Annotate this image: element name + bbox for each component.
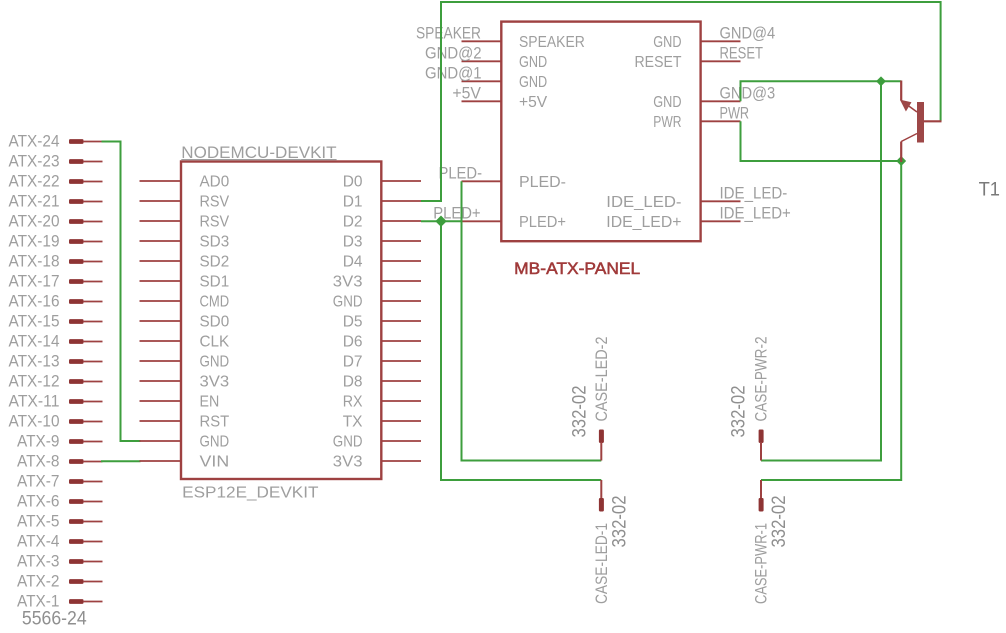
svg-text:PLED+: PLED+ <box>519 214 566 231</box>
svg-text:VIN: VIN <box>200 454 230 471</box>
svg-text:D3: D3 <box>343 234 363 251</box>
svg-text:NODEMCU-DEVKIT: NODEMCU-DEVKIT <box>181 143 336 162</box>
U2 pin RESET (right) <box>635 54 741 71</box>
svg-text:RSV: RSV <box>200 214 230 231</box>
svg-text:CASE-LED-2: CASE-LED-2 <box>593 337 611 422</box>
svg-text:RST: RST <box>200 414 230 431</box>
U2 pin PLED+ (left) <box>462 214 567 231</box>
U1 pin SD1 (left 6) <box>140 274 230 291</box>
svg-text:IDE_LED+: IDE_LED+ <box>606 214 681 231</box>
svg-text:+5V: +5V <box>519 94 548 111</box>
wire net GND@3 down to CASE-PWR-2 <box>761 81 881 460</box>
wire net PLED+ down to CASE-LED-1 <box>441 221 601 480</box>
U2 pin +5V (left) <box>462 94 548 111</box>
U1 pin VIN (left 15) <box>140 454 230 471</box>
svg-text:D7: D7 <box>343 354 363 371</box>
svg-text:ATX-4: ATX-4 <box>17 532 60 550</box>
svg-text:PWR: PWR <box>720 105 750 123</box>
U2 pin GND (left) <box>462 54 548 71</box>
connector J1 pin ATX-20 <box>9 212 103 230</box>
wire net PLED+: U1 D2 to U2 PLED+ <box>421 220 462 222</box>
net label PWR <box>720 105 750 123</box>
svg-text:ATX-3: ATX-3 <box>17 552 60 570</box>
U1 pin 3V3 (left 11) <box>140 374 230 391</box>
svg-text:ATX-2: ATX-2 <box>17 572 60 590</box>
U1 pin D6 (right 9) <box>343 334 421 351</box>
U2 pin IDE_LED+ (right) <box>606 214 740 231</box>
junction node GND@3 <box>876 76 886 86</box>
connector J1 pin ATX-16 <box>9 292 103 310</box>
svg-text:IDE_LED+: IDE_LED+ <box>720 205 791 223</box>
svg-text:D5: D5 <box>343 314 363 331</box>
svg-text:ATX-19: ATX-19 <box>9 232 60 250</box>
svg-text:IDE_LED-: IDE_LED- <box>606 194 681 211</box>
U1 pin D5 (right 8) <box>343 314 421 331</box>
net label SPEAKER <box>416 25 481 43</box>
svg-text:GND: GND <box>200 434 230 451</box>
connector J1 pin ATX-15 <box>9 312 103 330</box>
svg-text:ATX-18: ATX-18 <box>9 252 60 270</box>
label U2 value MB-ATX-PANEL <box>514 259 640 278</box>
net label GND@3 <box>720 85 776 103</box>
svg-text:GND: GND <box>333 294 363 311</box>
svg-text:SPEAKER: SPEAKER <box>519 34 585 51</box>
svg-text:T1: T1 <box>979 179 1000 201</box>
U1 pin SD2 (left 5) <box>140 254 230 271</box>
svg-text:GND@3: GND@3 <box>720 85 776 103</box>
connector J1 pin ATX-1 <box>17 592 103 610</box>
IC U2 MB-ATX-PANEL body <box>501 22 700 242</box>
junction node PLED+ at D2 <box>435 216 446 227</box>
svg-text:ATX-24: ATX-24 <box>9 132 60 150</box>
svg-text:AD0: AD0 <box>200 174 230 191</box>
connector J1 pin ATX-14 <box>9 332 103 350</box>
U1 pin EN (left 12) <box>140 394 220 411</box>
connector J1 pin ATX-18 <box>9 252 103 270</box>
svg-text:3V3: 3V3 <box>200 374 230 391</box>
svg-text:SD3: SD3 <box>200 234 230 251</box>
net label GND@4 <box>720 25 776 43</box>
label U1 value ESP12E_DEVKIT <box>182 484 319 501</box>
U1 pin RSV (left 3) <box>140 214 230 231</box>
connector J1 pin ATX-2 <box>17 572 103 590</box>
U1 pin D4 (right 5) <box>343 254 421 271</box>
U1 pin D0 (right 1) <box>343 174 421 191</box>
svg-text:GND: GND <box>653 34 681 51</box>
label J1 value 5566-24 <box>22 607 87 629</box>
wire net PLED-: U2 PLED- to CASE-LED-2 <box>462 181 602 460</box>
U2 pin PWR (right) <box>653 114 740 131</box>
U1 pin RSV (left 2) <box>140 194 230 211</box>
U2 pin GND (right) <box>653 94 740 111</box>
svg-text:ATX-12: ATX-12 <box>9 372 60 390</box>
svg-text:GND: GND <box>333 434 363 451</box>
U2 pin IDE_LED- (right) <box>606 194 740 211</box>
svg-text:GND: GND <box>653 94 681 111</box>
IC U1 NODEMCU-DEVKIT body <box>181 162 381 480</box>
svg-text:PLED-: PLED- <box>439 165 483 183</box>
wire net GND: ATX-24 to U1 GND <box>102 142 141 442</box>
connector J1 pin ATX-24 <box>9 132 103 150</box>
net label GND@2 <box>425 45 482 63</box>
U1 pin D2 (right 3) <box>343 214 421 231</box>
svg-text:CASE-PWR-2: CASE-PWR-2 <box>753 337 771 422</box>
U2 pin PLED- (left) <box>462 174 567 191</box>
connector J1 pin ATX-5 <box>17 512 103 530</box>
U1 pin SD3 (left 4) <box>140 234 230 251</box>
connector J1 pin ATX-21 <box>9 192 103 210</box>
net label +5V <box>452 85 481 103</box>
connector J1 pin ATX-12 <box>9 372 103 390</box>
connector CASE-PWR-1 pin 1 <box>759 480 764 512</box>
svg-text:ATX-16: ATX-16 <box>9 292 60 310</box>
U1 pin GND (right 14) <box>333 434 421 451</box>
svg-text:ATX-21: ATX-21 <box>9 192 60 210</box>
svg-text:3V3: 3V3 <box>333 274 363 291</box>
svg-text:D1: D1 <box>343 194 363 211</box>
label CASE-LED-1 name <box>593 523 611 604</box>
U1 pin CLK (left 9) <box>140 334 230 351</box>
svg-text:ATX-10: ATX-10 <box>9 412 60 430</box>
U1 pin GND (right 7) <box>333 294 421 311</box>
wire net GND@3: U2 GND to T1 emitter <box>741 81 902 101</box>
label CASE-LED-1 value 332-02 <box>608 496 630 548</box>
label CASE-PWR-1 name <box>753 523 771 604</box>
wire net VIN: ATX-8 to U1 VIN <box>101 460 141 462</box>
connector CASE-LED-1 pin 1 <box>599 480 604 512</box>
svg-text:D0: D0 <box>343 174 363 191</box>
U2 pin SPEAKER (left) <box>462 34 585 51</box>
U1 pin TX (right 13) <box>343 414 421 431</box>
svg-text:ATX-8: ATX-8 <box>17 452 60 470</box>
label T1 name <box>979 179 1000 201</box>
junction node PWR at collector <box>896 156 906 166</box>
label CASE-PWR-1 value 332-02 <box>768 496 790 548</box>
svg-text:ATX-9: ATX-9 <box>17 432 60 450</box>
svg-text:RSV: RSV <box>200 194 230 211</box>
U2 pin GND (left) <box>462 74 548 91</box>
svg-text:332-02: 332-02 <box>768 496 790 548</box>
connector J1 pin ATX-4 <box>17 532 103 550</box>
svg-text:GND: GND <box>519 54 547 71</box>
svg-text:+5V: +5V <box>452 85 481 103</box>
connector J1 pin ATX-13 <box>9 352 103 370</box>
svg-text:ATX-14: ATX-14 <box>9 332 60 350</box>
U2 pin GND (right) <box>653 34 740 51</box>
connector J1 pin ATX-11 <box>9 392 103 410</box>
U1 pin D1 (right 2) <box>343 194 421 211</box>
svg-text:5566-24: 5566-24 <box>22 607 87 629</box>
label CASE-PWR-2 name <box>753 337 771 422</box>
svg-text:ATX-6: ATX-6 <box>17 492 60 510</box>
connector J1 pin ATX-3 <box>17 552 103 570</box>
connector J1 pin ATX-8 <box>17 452 103 470</box>
U1 pin AD0 (left 1) <box>140 174 230 191</box>
svg-text:D4: D4 <box>343 254 363 271</box>
svg-text:SPEAKER: SPEAKER <box>416 25 481 43</box>
net label PLED+ <box>433 205 480 223</box>
svg-text:GND@2: GND@2 <box>425 45 482 63</box>
svg-text:ATX-5: ATX-5 <box>17 512 60 530</box>
wire net PWR down to CASE-PWR-1 <box>761 161 901 480</box>
connector J1 pin ATX-7 <box>17 472 103 490</box>
connector J1 pin ATX-19 <box>9 232 103 250</box>
svg-text:MB-ATX-PANEL: MB-ATX-PANEL <box>514 259 640 278</box>
svg-text:ATX-20: ATX-20 <box>9 212 60 230</box>
svg-text:332-02: 332-02 <box>568 386 590 438</box>
connector J1 pin ATX-9 <box>17 432 103 450</box>
svg-text:ATX-22: ATX-22 <box>9 172 60 190</box>
U1 pin 3V3 (right 15) <box>333 454 421 471</box>
svg-text:ESP12E_DEVKIT: ESP12E_DEVKIT <box>182 484 319 501</box>
connector CASE-PWR-2 pin 1 <box>759 430 764 461</box>
svg-text:D8: D8 <box>343 374 363 391</box>
svg-text:RESET: RESET <box>635 54 682 71</box>
svg-text:PLED-: PLED- <box>519 174 566 191</box>
svg-text:ATX-7: ATX-7 <box>17 472 60 490</box>
U1 pin 3V3 (right 6) <box>333 274 421 291</box>
svg-text:D6: D6 <box>343 334 363 351</box>
U1 pin D8 (right 11) <box>343 374 421 391</box>
svg-text:PWR: PWR <box>653 114 681 131</box>
svg-text:RX: RX <box>343 394 363 411</box>
U1 pin RST (left 13) <box>140 414 230 431</box>
svg-text:GND@4: GND@4 <box>720 25 776 43</box>
svg-text:TX: TX <box>343 414 363 431</box>
svg-text:IDE_LED-: IDE_LED- <box>720 185 788 203</box>
connector J1 pin ATX-23 <box>9 152 103 170</box>
svg-text:SD1: SD1 <box>200 274 230 291</box>
svg-text:ATX-15: ATX-15 <box>9 312 60 330</box>
transistor T1 (PNP) <box>900 81 942 163</box>
svg-text:ATX-17: ATX-17 <box>9 272 60 290</box>
net label GND@1 <box>425 65 482 83</box>
label CASE-LED-2 name <box>593 337 611 422</box>
svg-text:GND: GND <box>519 74 547 91</box>
svg-text:GND@1: GND@1 <box>425 65 482 83</box>
svg-text:332-02: 332-02 <box>728 386 750 438</box>
svg-text:CLK: CLK <box>200 334 230 351</box>
U1 pin GND (left 14) <box>140 434 230 451</box>
connector J1 pin ATX-17 <box>9 272 103 290</box>
net label PLED- <box>439 165 483 183</box>
svg-text:SD2: SD2 <box>200 254 230 271</box>
U1 pin D7 (right 10) <box>343 354 421 371</box>
svg-text:ATX-23: ATX-23 <box>9 152 60 170</box>
U1 pin D3 (right 4) <box>343 234 421 251</box>
svg-text:CMD: CMD <box>200 294 230 311</box>
svg-text:SD0: SD0 <box>200 314 230 331</box>
connector J1 pin ATX-22 <box>9 172 103 190</box>
svg-text:EN: EN <box>200 394 220 411</box>
svg-text:GND: GND <box>200 354 230 371</box>
label U1 name NODEMCU-DEVKIT <box>181 143 336 162</box>
svg-text:332-02: 332-02 <box>608 496 630 548</box>
wire net D1: U1 D1 to T1 base <box>421 2 941 201</box>
net label RESET <box>720 45 764 63</box>
label CASE-LED-2 value 332-02 <box>568 386 590 438</box>
svg-text:3V3: 3V3 <box>333 454 363 471</box>
svg-text:ATX-13: ATX-13 <box>9 352 60 370</box>
U1 pin CMD (left 7) <box>140 294 230 311</box>
U1 pin RX (right 12) <box>343 394 421 411</box>
connector J1 pin ATX-6 <box>17 492 103 510</box>
connector CASE-LED-2 pin 1 <box>599 430 604 461</box>
label CASE-PWR-2 value 332-02 <box>728 386 750 438</box>
svg-text:RESET: RESET <box>720 45 764 63</box>
svg-text:D2: D2 <box>343 214 363 231</box>
connector J1 pin ATX-10 <box>9 412 103 430</box>
net label IDE_LED- <box>720 185 788 203</box>
wire net PWR: U2 PWR to T1 collector <box>741 121 902 161</box>
net label IDE_LED+ <box>720 205 791 223</box>
svg-text:ATX-11: ATX-11 <box>9 392 60 410</box>
U1 pin GND (left 10) <box>140 354 230 371</box>
U1 pin SD0 (left 8) <box>140 314 230 331</box>
